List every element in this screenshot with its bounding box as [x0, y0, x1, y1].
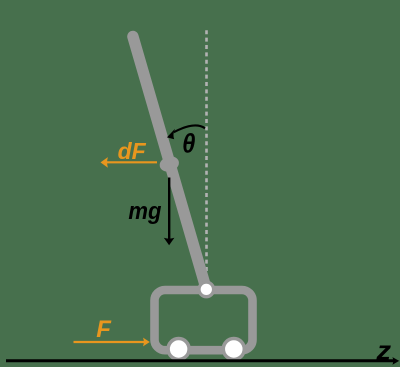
right wheel [223, 339, 244, 360]
svg-text:θ: θ [182, 129, 195, 159]
theta angle arc [174, 125, 205, 132]
theta arc arrowhead [167, 129, 175, 139]
F arrowhead [143, 338, 150, 347]
ground line [6, 359, 394, 362]
cart body [155, 290, 253, 350]
dF arrowhead [101, 157, 108, 168]
dashed vertical reference line [205, 30, 208, 272]
F force arrow [74, 341, 145, 343]
svg-text:z: z [375, 336, 391, 365]
pendulum rod [133, 37, 207, 291]
mg arrowhead [164, 238, 175, 245]
svg-text:dF: dF [118, 138, 147, 164]
svg-text:F: F [96, 316, 112, 343]
pivot joint on cart [199, 282, 214, 297]
pendulum bob (point mass) [158, 154, 181, 174]
mg gravity arrow [168, 178, 170, 241]
left wheel [168, 339, 189, 360]
dF force arrow [106, 161, 157, 163]
ground axis arrowhead [392, 357, 399, 365]
svg-text:mg: mg [128, 197, 161, 224]
